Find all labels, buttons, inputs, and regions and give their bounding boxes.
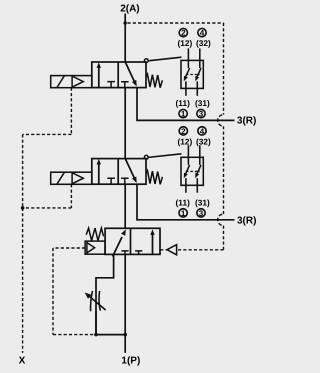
wire valve V1 port3 down <box>137 88 235 121</box>
pilot line dashed 2(A) horizontal to right <box>128 22 224 24</box>
valve V2 switch pivot roller <box>144 155 148 159</box>
terminal circled 3 of switch S2 <box>197 209 205 218</box>
svg-text:(11): (11) <box>176 98 191 108</box>
pilot stub valve V3 right <box>160 249 167 251</box>
switch S1 right contact (32-31) <box>195 48 201 95</box>
valve V1 right-position flow diagonal <box>125 62 136 86</box>
svg-text:1: 1 <box>181 209 186 218</box>
pilot line dashed below solenoid V2 <box>70 184 72 208</box>
svg-text:2: 2 <box>181 29 186 38</box>
valve V2 body divider <box>117 159 119 185</box>
valve V1 body divider <box>117 62 119 88</box>
svg-text:(12): (12) <box>178 137 193 147</box>
switch S1 left contact (12-11) <box>184 48 190 95</box>
valve V2 body outline <box>92 159 146 185</box>
switch S2 mechanical coupling dashed link <box>186 170 200 172</box>
pilot line dashed X vertical upper <box>22 134 24 208</box>
valve V1 body outline <box>92 62 146 88</box>
switch S2 contact box <box>181 157 203 185</box>
terminal circled 4 of switch S1 <box>198 28 206 37</box>
valve V1 switch lever <box>148 57 181 61</box>
node junction at 2(A) <box>123 21 127 25</box>
valve V2 left-position flow arrow <box>97 159 101 184</box>
svg-text:(31): (31) <box>195 98 210 108</box>
valve V3 body outline <box>105 228 160 254</box>
valve V1 left-position blocked port <box>107 82 115 88</box>
wire main line 2(A) to valve V1 port 2 <box>124 14 126 63</box>
switch S1 mechanical coupling dashed link <box>186 74 200 76</box>
line hop over 3(R) line 2 <box>218 214 224 226</box>
pilot line dashed bottom of loop <box>53 334 94 336</box>
valve V2 solenoid coil box <box>51 172 92 184</box>
svg-text:(32): (32) <box>196 38 211 48</box>
node junction throttle line <box>94 333 98 337</box>
terminal circled 2 of switch S2 <box>179 127 187 136</box>
svg-text:X: X <box>19 355 26 366</box>
terminal circled 1 of switch S2 <box>179 209 187 218</box>
svg-text:3: 3 <box>199 110 204 119</box>
pilot line dashed to bottom valve right pilot <box>177 249 224 251</box>
wire valve V3 outlet to throttle <box>96 254 114 333</box>
valve V1 return spring <box>146 74 162 88</box>
pilot line dashed right vertical middle segment <box>223 126 225 214</box>
switch S2 right contact (32-31) <box>195 145 201 192</box>
svg-text:(11): (11) <box>176 198 191 208</box>
wire valve V2 port3 down <box>137 184 235 220</box>
terminal circled 3 of switch S1 <box>197 109 205 118</box>
valve V1 right-position blocked port <box>121 82 129 88</box>
valve V3 right-position blocked port <box>135 251 142 255</box>
pilot line dashed horizontal upper X branch <box>23 133 72 135</box>
pilot line dashed from V3 left pilot <box>53 247 85 249</box>
svg-text:4: 4 <box>200 127 205 136</box>
valve V2 solenoid pilot triangle <box>72 173 83 184</box>
valve V1 solenoid diagonal stroke <box>57 76 65 88</box>
pilot line dashed below solenoid V1 <box>70 88 72 135</box>
svg-text:(32): (32) <box>196 137 211 147</box>
valve V2 return spring <box>146 171 162 185</box>
valve V3 left pilot box <box>85 241 105 254</box>
valve V1 solenoid pilot triangle <box>72 76 83 87</box>
wire throttle to main line junction <box>95 311 97 335</box>
node junction main line bottom <box>123 333 127 337</box>
throttle valve restriction arcs <box>91 291 101 311</box>
valve V3 return spring <box>86 228 103 241</box>
svg-text:1(P): 1(P) <box>121 355 140 366</box>
valve V3 left pilot triangle <box>87 243 95 253</box>
valve V1 left-position flow arrow <box>97 62 101 87</box>
node junction X line <box>21 206 25 210</box>
terminal circled 2 of switch S1 <box>179 28 187 37</box>
valve V3 left-position blocked port <box>121 251 128 255</box>
pilot line dashed left vertical of loop <box>52 248 54 335</box>
wire main line valve V3 to 1(P) <box>124 254 126 353</box>
svg-text:2(A): 2(A) <box>120 4 139 15</box>
svg-text:4: 4 <box>200 29 205 38</box>
terminal circled 4 of switch S2 <box>198 127 206 136</box>
svg-text:3(R): 3(R) <box>237 115 256 126</box>
valve V3 right-position flow arrow <box>150 229 154 254</box>
wire main line valve V1 to valve V2 <box>124 88 126 159</box>
svg-text:1: 1 <box>181 110 186 119</box>
svg-text:3: 3 <box>199 209 204 218</box>
wire bottom horizontal to main line <box>96 334 125 336</box>
valve V3 left-position flow diagonal <box>113 229 126 256</box>
valve V3 body divider <box>130 228 132 254</box>
svg-text:(12): (12) <box>178 38 193 48</box>
valve V1 solenoid coil box <box>51 76 92 88</box>
pilot line dashed right vertical upper segment <box>223 23 225 115</box>
throttle valve adjustment arrow <box>85 293 106 311</box>
switch S2 left contact (12-11) <box>184 145 190 192</box>
svg-text:2: 2 <box>181 127 186 136</box>
valve V2 right-position flow diagonal <box>125 159 136 183</box>
valve V2 switch lever <box>148 154 181 158</box>
wire main line valve V2 to valve V3 <box>124 184 126 228</box>
valve V2 solenoid diagonal stroke <box>57 172 65 184</box>
pilot line dashed right vertical lower segment <box>223 226 225 250</box>
valve V1 switch pivot roller <box>144 59 148 63</box>
terminal circled 1 of switch S1 <box>179 109 187 118</box>
valve V2 left-position blocked port <box>107 178 115 184</box>
valve V3 right pilot triangle <box>167 245 177 255</box>
pilot line dashed X vertical lower <box>22 208 24 353</box>
pilot line dashed horizontal lower X branch <box>25 207 72 209</box>
line hop over 3(R) line 1 <box>218 115 224 127</box>
svg-text:(31): (31) <box>195 198 210 208</box>
switch S1 contact box <box>181 60 203 88</box>
svg-text:3(R): 3(R) <box>237 216 256 227</box>
valve V2 right-position blocked port <box>121 178 129 184</box>
